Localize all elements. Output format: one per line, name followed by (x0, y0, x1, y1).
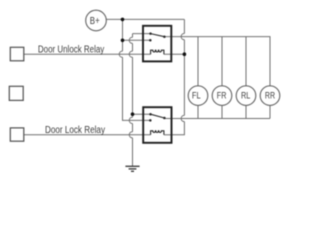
svg-text:FR: FR (217, 90, 227, 100)
svg-text:RL: RL (241, 90, 250, 100)
svg-text:RR: RR (265, 90, 275, 100)
svg-text:Door Unlock Relay: Door Unlock Relay (38, 44, 104, 55)
svg-text:Door Lock Relay: Door Lock Relay (45, 125, 105, 136)
svg-text:FL: FL (192, 90, 201, 100)
svg-text:B+: B+ (90, 16, 100, 27)
